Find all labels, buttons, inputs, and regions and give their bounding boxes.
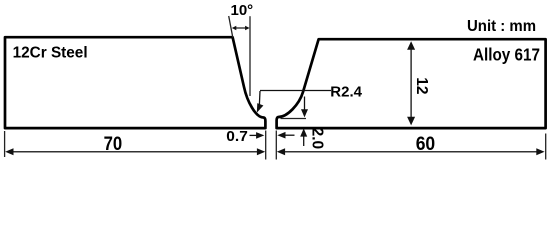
extension line below left plate left edge xyxy=(4,131,6,157)
svg-text:0.7: 0.7 xyxy=(226,128,248,145)
svg-text:R2.4: R2.4 xyxy=(330,84,362,101)
0.7 left arrow pointing right xyxy=(250,132,265,139)
60 dimension line xyxy=(277,148,545,155)
svg-text:2.0: 2.0 xyxy=(308,128,325,150)
extension line below left root face xyxy=(265,131,267,160)
2.0 upper arrow pointing down xyxy=(301,97,308,118)
left plate 12Cr Steel outline xyxy=(5,37,265,128)
R2.4 leader line xyxy=(257,91,331,113)
extension line below right plate right edge xyxy=(545,134,547,160)
0.7 right arrow pointing left xyxy=(277,132,294,139)
svg-text:60: 60 xyxy=(416,133,436,155)
svg-text:12: 12 xyxy=(413,77,430,94)
groove face thin extension line xyxy=(229,16,233,38)
svg-text:10°: 10° xyxy=(231,2,254,19)
right plate Alloy 617 outline xyxy=(277,39,546,128)
svg-text:Alloy 617: Alloy 617 xyxy=(473,44,540,64)
2.0 lower arrow pointing up xyxy=(300,128,307,146)
svg-text:12Cr Steel: 12Cr Steel xyxy=(13,45,88,62)
svg-text:Unit : mm: Unit : mm xyxy=(467,18,536,35)
2.0 extension line xyxy=(281,118,307,120)
extension line below right root face xyxy=(275,131,277,160)
70 dimension line xyxy=(5,148,265,155)
svg-text:70: 70 xyxy=(104,133,123,155)
angle dimension arrow xyxy=(232,26,250,31)
vertical angle reference line xyxy=(249,16,251,96)
12 thickness dimension arrows xyxy=(407,41,415,125)
